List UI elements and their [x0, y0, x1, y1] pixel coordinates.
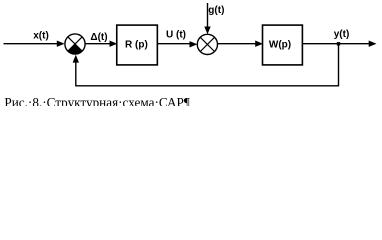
wire: disturbance g(t) vertical into junction 2 — [207, 3, 209, 28]
svg-text:R (p): R (p) — [125, 39, 148, 50]
svg-text:U (t): U (t) — [166, 29, 186, 40]
svg-text:x(t): x(t) — [33, 31, 49, 42]
wire: junction 2 to W(p) — [217, 43, 255, 45]
block R(p) (regulator) — [117, 25, 158, 65]
arrowhead into R(p) — [110, 41, 118, 47]
svg-text:W(p): W(p) — [269, 39, 291, 50]
block W(p) (plant) — [263, 25, 303, 65]
arrowhead into W(p) — [255, 41, 263, 47]
arrowhead into summing junction 1 (bottom) — [73, 55, 79, 63]
svg-text:y(t): y(t) — [334, 29, 350, 40]
node: feedback branch point — [337, 42, 340, 45]
wire: feedback bottom horizontal — [76, 85, 339, 87]
arrowhead into summing junction 2 (top) — [204, 27, 210, 35]
wire: feedback vertical down from branch — [338, 44, 340, 86]
svg-text:g(t): g(t) — [208, 5, 224, 16]
arrowhead into summing junction 1 (left) — [57, 41, 65, 47]
svg-text:Δ(t): Δ(t) — [90, 32, 107, 43]
svg-text:Рис.·8.·Структурная·схема·САР¶: Рис.·8.·Структурная·схема·САР¶ — [4, 95, 189, 106]
summing junction 1 (comparator, filled bottom sector) — [65, 34, 85, 54]
wire: feedback vertical up to junction 1 — [75, 61, 77, 86]
wire: R(p) to summing junction 2, label U (t) — [158, 43, 191, 45]
arrowhead into summing junction 2 (left) — [190, 41, 198, 47]
arrowhead output right — [369, 41, 377, 47]
wire: output y(t) from W(p) to right edge — [303, 43, 369, 45]
wire: junction 1 to R(p) — [85, 43, 110, 45]
summing junction 2 (adder) — [197, 34, 217, 54]
wire: input line x(t) to summing junction 1 — [4, 43, 58, 45]
